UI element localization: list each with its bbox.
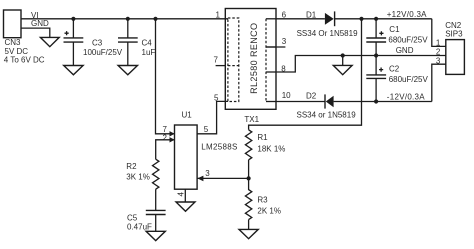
svg-text:SS34 Or 1N5819: SS34 Or 1N5819 bbox=[297, 29, 358, 38]
diode D2 bbox=[297, 91, 357, 119]
svg-text:100uF/25V: 100uF/25V bbox=[83, 48, 123, 57]
svg-text:3K 1%: 3K 1% bbox=[126, 173, 150, 182]
wire U1 pin4 to ground bbox=[184, 189, 186, 202]
junction dot C4 bbox=[126, 17, 130, 21]
junction dot C3 bbox=[71, 17, 75, 21]
svg-text:R1: R1 bbox=[257, 133, 268, 142]
svg-text:4: 4 bbox=[176, 192, 185, 197]
svg-text:GND: GND bbox=[31, 19, 49, 28]
resistor R3 bbox=[245, 178, 281, 219]
svg-text:3: 3 bbox=[205, 169, 210, 178]
ground at GND rail bbox=[333, 65, 352, 74]
transformer TX1 bbox=[225, 9, 276, 125]
junction dot U1 supply bbox=[153, 17, 157, 21]
wire R3 to ground bbox=[248, 220, 250, 230]
pin 3 TX stub bbox=[266, 46, 285, 48]
svg-text:U1: U1 bbox=[182, 111, 193, 120]
svg-text:2: 2 bbox=[436, 47, 441, 56]
svg-text:7: 7 bbox=[214, 55, 219, 64]
wire TX pin10 to D2 bbox=[276, 101, 325, 103]
connector CN2 bbox=[445, 21, 464, 74]
svg-text:2: 2 bbox=[163, 134, 168, 143]
svg-text:0.47uF: 0.47uF bbox=[127, 223, 152, 232]
svg-text:R3: R3 bbox=[257, 195, 268, 204]
svg-text:C1: C1 bbox=[389, 25, 400, 34]
wire rail to U1 pin7 bbox=[156, 19, 175, 134]
wire U1 pin2 to R2 bbox=[156, 140, 175, 159]
svg-text:680uF/25V: 680uF/25V bbox=[389, 75, 429, 84]
svg-text:3: 3 bbox=[436, 56, 441, 65]
op-amp U1 bbox=[175, 111, 238, 190]
pin 2 arrow U1 bbox=[170, 137, 175, 142]
resistor R2 bbox=[126, 159, 159, 189]
svg-text:C5: C5 bbox=[127, 214, 138, 223]
svg-text:TX1: TX1 bbox=[244, 115, 259, 124]
wire -12V to CN2 pin3 bbox=[432, 64, 446, 101]
svg-text:1: 1 bbox=[436, 38, 441, 47]
pin 7 arrow U1 bbox=[170, 131, 175, 136]
connector CN3 bbox=[4, 10, 45, 65]
svg-text:4 To 6V DC: 4 To 6V DC bbox=[4, 56, 45, 65]
svg-text:2K 1%: 2K 1% bbox=[257, 207, 281, 216]
pin 3 arrow U1 bbox=[197, 176, 203, 182]
pin 8 TX wire to GND rail bbox=[276, 56, 446, 73]
ground below C5 bbox=[146, 231, 165, 240]
svg-text:C2: C2 bbox=[389, 64, 400, 73]
wire +12V to CN2 pin1 bbox=[432, 19, 446, 47]
junction dot C1 bottom bbox=[374, 53, 378, 57]
svg-text:-12V/0.3A: -12V/0.3A bbox=[387, 93, 425, 102]
svg-text:LM2588S: LM2588S bbox=[201, 142, 237, 151]
wire stub to ground bbox=[342, 56, 344, 66]
capacitor C1 bbox=[366, 19, 428, 56]
svg-text:SS34 or 1N5819: SS34 or 1N5819 bbox=[297, 111, 357, 120]
svg-text:RL2580 RENCO: RL2580 RENCO bbox=[249, 23, 259, 94]
svg-text:SIP3: SIP3 bbox=[445, 29, 463, 38]
junction dot C1 top bbox=[374, 17, 378, 21]
wire TX pin6 to D1 bbox=[276, 18, 325, 20]
svg-text:5: 5 bbox=[214, 93, 219, 102]
svg-text:10: 10 bbox=[282, 91, 291, 100]
svg-text:C3: C3 bbox=[92, 38, 103, 47]
junction dot FB node bbox=[247, 176, 251, 180]
resistor R1 bbox=[245, 130, 285, 160]
wire FB node to U1 pin3 bbox=[197, 177, 249, 179]
junction dot GND ground bbox=[341, 53, 345, 57]
wire D2 to -12V rail bbox=[334, 101, 432, 103]
capacitor C3 bbox=[64, 19, 123, 66]
ground below U1 pin4 bbox=[176, 202, 195, 211]
junction dot C2 bottom bbox=[374, 99, 378, 103]
svg-text:1uF: 1uF bbox=[142, 48, 156, 57]
wire R2 to C5 bbox=[155, 189, 157, 210]
ground below C4 bbox=[118, 66, 137, 75]
svg-text:680uF/25V: 680uF/25V bbox=[388, 36, 428, 45]
svg-text:5: 5 bbox=[204, 125, 209, 134]
wire CN3 GND bbox=[21, 28, 50, 37]
wire U1 pin5 to TX pin5 bbox=[197, 101, 228, 133]
svg-text:3: 3 bbox=[282, 37, 287, 46]
wire D1 to +12V rail bbox=[335, 18, 432, 20]
svg-text:8: 8 bbox=[281, 64, 286, 73]
capacitor C2 bbox=[366, 56, 428, 102]
svg-text:GND: GND bbox=[396, 46, 414, 55]
svg-text:+12V/0.3A: +12V/0.3A bbox=[387, 10, 427, 19]
svg-text:C4: C4 bbox=[142, 38, 153, 47]
svg-text:D1: D1 bbox=[306, 10, 317, 19]
wire feedback from +12V to R1 bbox=[249, 19, 362, 130]
capacitor C4 bbox=[118, 19, 155, 66]
wire R1 to FB node bbox=[248, 160, 250, 179]
pin 7 TX stub bbox=[216, 65, 226, 67]
wire VI rail CN3 to TX pin1 bbox=[21, 18, 228, 20]
junction dot feedback top bbox=[359, 17, 363, 21]
ground below C3 bbox=[64, 66, 83, 75]
svg-text:D2: D2 bbox=[306, 91, 317, 100]
svg-text:CN3: CN3 bbox=[5, 38, 22, 47]
svg-text:18K 1%: 18K 1% bbox=[257, 144, 285, 153]
diode D1 bbox=[297, 10, 358, 38]
svg-text:R2: R2 bbox=[126, 162, 137, 171]
svg-text:1: 1 bbox=[216, 10, 221, 19]
ground below CN3 GND bbox=[40, 37, 59, 46]
capacitor C5 bbox=[127, 210, 166, 231]
ground below R3 bbox=[239, 229, 258, 238]
